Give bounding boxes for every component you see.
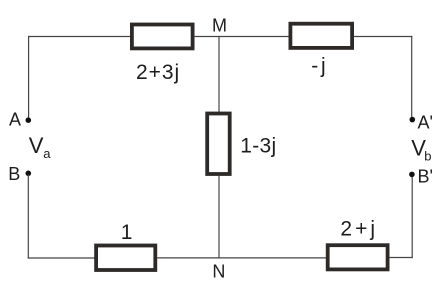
svg-text:1: 1 — [121, 221, 133, 244]
svg-text:2+3j: 2+3j — [136, 61, 180, 84]
wire right vertical to terminal A' — [411, 37, 413, 118]
wire Z3 down to node N — [218, 176, 220, 258]
label value -j — [311, 55, 328, 78]
label B — [8, 164, 20, 184]
label Va — [29, 133, 51, 161]
label value 2+j — [340, 217, 378, 240]
label value 1-3j — [240, 135, 276, 158]
svg-text:a: a — [43, 146, 51, 161]
terminal dot B — [26, 171, 32, 177]
terminal dot A' — [410, 117, 416, 123]
node M label — [212, 16, 227, 36]
wire top-left from terminal A corner to Z1 — [29, 36, 131, 38]
label A — [9, 109, 21, 129]
wire from Z1 through node M to Z2 — [195, 36, 289, 38]
svg-text:2+j: 2+j — [340, 217, 378, 240]
svg-text:-j: -j — [311, 55, 328, 78]
svg-text:V: V — [29, 133, 44, 158]
svg-text:N: N — [212, 261, 225, 281]
wire node M vertical down to Z3 — [218, 37, 220, 112]
wire from Z5 to bottom-right corner — [390, 257, 413, 259]
svg-text:M: M — [212, 16, 227, 36]
label A' — [418, 112, 433, 132]
wire from terminal B down to bottom-left corner — [27, 175, 29, 258]
resistor Z2 -j — [290, 24, 352, 48]
resistor Z1 2+3j — [132, 25, 193, 49]
wire right vertical from terminal B' down to corner — [411, 176, 413, 258]
label Vb — [411, 136, 431, 164]
resistor Z3 1-3j (vertical) — [207, 114, 230, 175]
wire left vertical to terminal A — [28, 37, 30, 119]
svg-text:B': B' — [418, 166, 433, 186]
label value 2+3j — [136, 61, 180, 84]
svg-text:b: b — [424, 148, 431, 163]
wire bottom-left corner to Z4 — [28, 257, 94, 259]
wire from Z2 to top-right corner — [354, 36, 412, 38]
label B' — [418, 166, 433, 186]
svg-text:A': A' — [418, 112, 433, 132]
label value 1 — [121, 221, 133, 244]
wire from Z4 through node N to Z5 — [157, 257, 326, 259]
svg-text:A: A — [9, 109, 21, 129]
terminal dot B' — [409, 172, 415, 178]
svg-text:1-3j: 1-3j — [240, 135, 276, 158]
node N label — [212, 261, 225, 281]
resistor Z5 2+j — [328, 245, 388, 269]
terminal dot A — [26, 117, 32, 123]
svg-text:B: B — [8, 164, 20, 184]
resistor Z4 1 — [96, 246, 155, 271]
